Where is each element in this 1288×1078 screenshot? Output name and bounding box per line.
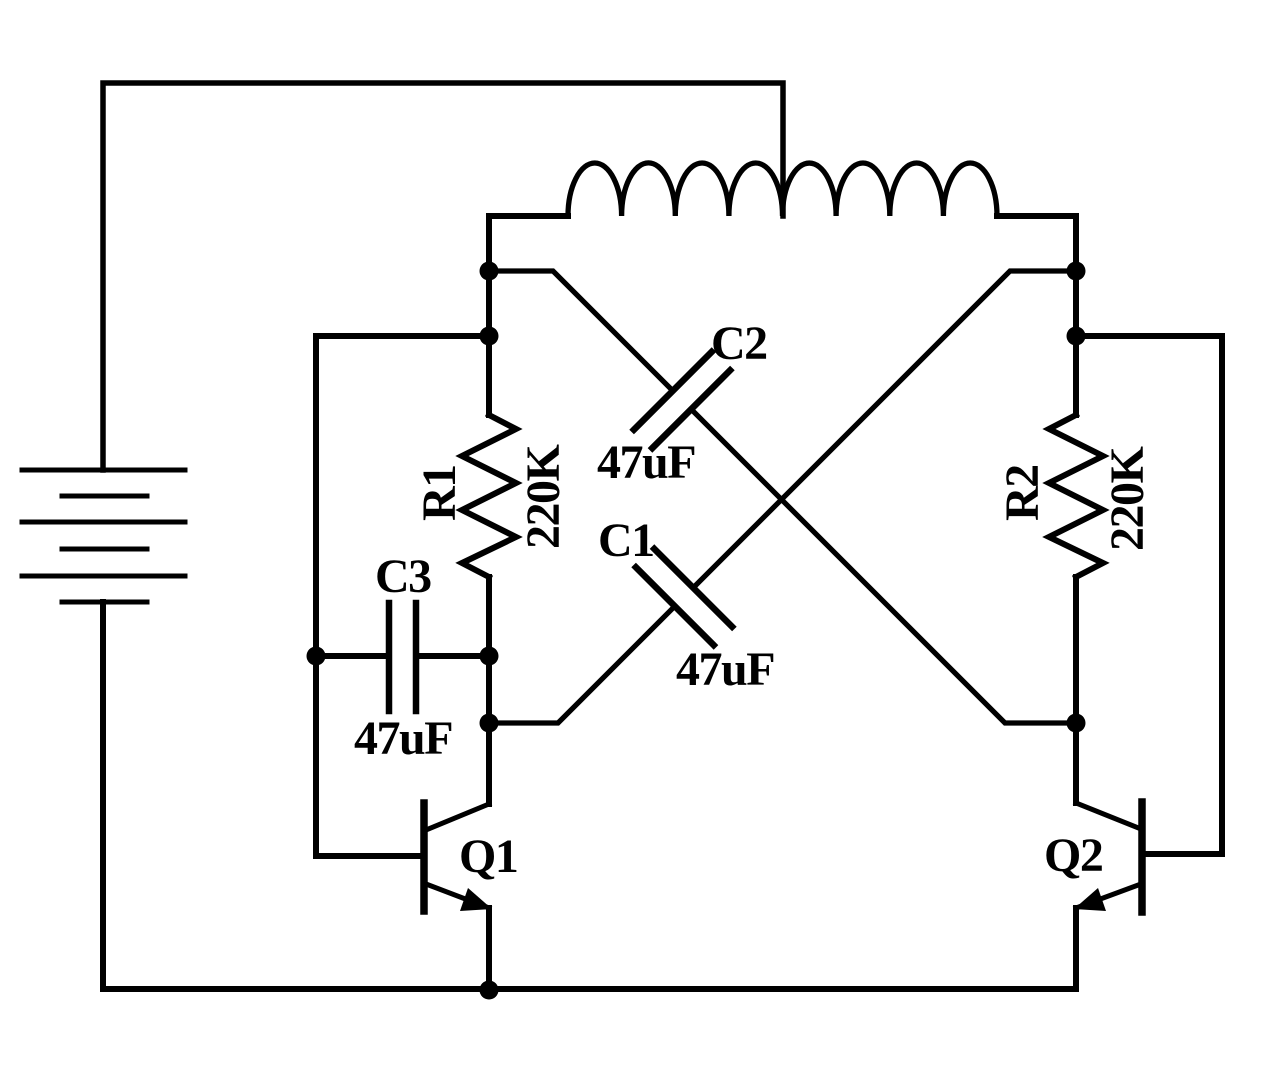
svg-text:47uF: 47uF [354,712,452,765]
junction C3 left node [307,647,326,666]
junction R2 bottom node [1067,714,1086,733]
inductor L1 (center-tapped coil) [568,163,997,216]
wire node B to R2 top node [1073,271,1079,336]
wire C3 left lead [316,653,389,659]
wire bottom rail [103,986,1076,992]
svg-text:Q1: Q1 [459,830,517,883]
svg-text:220K: 220K [517,445,570,550]
junction R2 top node [1067,327,1086,346]
junction R1 top node [480,327,499,346]
wire R1 top lead [486,336,492,415]
transistor Q1 [424,803,492,911]
svg-text:C2: C2 [711,317,767,370]
capacitor C3 [389,603,416,711]
wire left bracket (R1 top node to Q1 base) [316,336,489,856]
junction Q1 emitter / bottom rail [480,981,499,1000]
svg-text:47uF: 47uF [676,643,774,696]
capacitor C1 [636,549,732,645]
svg-text:C3: C3 [375,550,431,603]
svg-text:Q2: Q2 [1044,829,1102,882]
resistor R2 [1049,415,1103,577]
resistor R1 [462,415,516,577]
svg-text:R1: R1 [413,465,466,521]
wire battery negative lead [100,602,106,989]
wire R2 bottom lead / Q2 collector column [1073,577,1079,803]
wire right bracket (R2 top node to Q2 base) [1076,336,1222,854]
capacitor C2 [634,352,730,448]
wire node A to R1 top node [486,271,492,336]
junction node A (coil left / cross wire) [480,262,499,281]
wire coil left end to node A [489,216,568,271]
junction node B (coil right / cross wire) [1067,262,1086,281]
transistor Q2 [1074,802,1142,912]
svg-text:220K: 220K [1101,447,1154,552]
wire Q2 emitter to bottom rail [1073,908,1079,989]
wire C2 to R2 bottom node [691,409,1076,723]
junction R1 bottom node [480,714,499,733]
svg-text:R2: R2 [996,465,1049,521]
wire battery positive to inductor center tap [103,83,783,470]
wire coil right end to node B [997,216,1076,271]
junction C3 right node [480,647,499,666]
svg-text:47uF: 47uF [597,436,695,489]
battery B1 [22,470,185,602]
wire R1 bottom lead / Q1 collector column [486,577,492,804]
wire node A to C2 [489,271,673,391]
wire C3 right lead [416,653,489,659]
svg-text:C1: C1 [598,514,654,567]
wire node B to C1 [693,271,1076,588]
wire C1 to R1 bottom node [489,606,675,723]
wire Q1 emitter to bottom rail [486,908,492,989]
wire R2 top lead [1073,336,1079,415]
